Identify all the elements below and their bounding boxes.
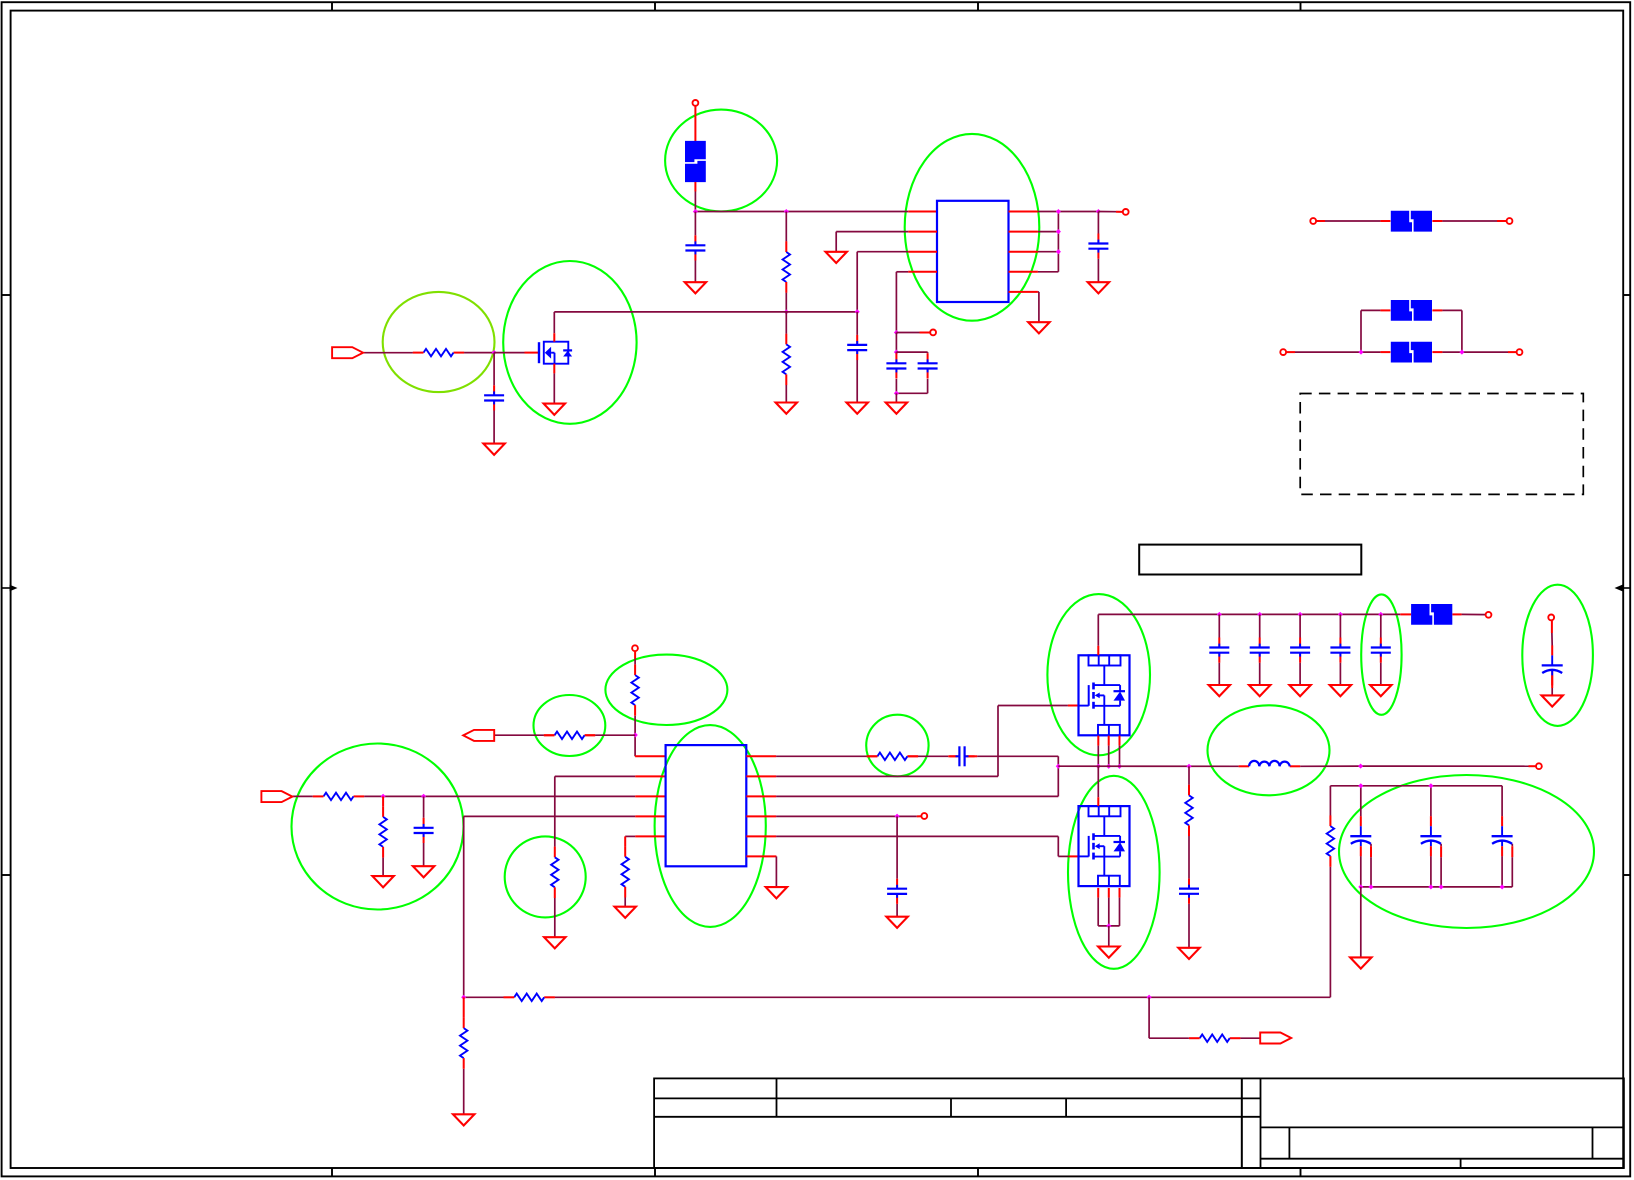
- terminal J3b: [1517, 349, 1523, 355]
- ground rail cap 2: [1249, 685, 1270, 696]
- highlight ellipse around FB1: [665, 110, 777, 212]
- wire R12 to port: [1240, 1037, 1260, 1039]
- wire bank cap 3 column: [1502, 786, 1512, 887]
- junction bank aux 2: [1439, 884, 1444, 889]
- wire U1 pin5 ground: [1038, 292, 1039, 322]
- junction output node: [1358, 764, 1363, 769]
- wire port to R3: [363, 352, 413, 354]
- wire U1 pin3 to node: [857, 252, 908, 312]
- terminal VOUT1: [1123, 209, 1129, 215]
- resistor R10: [460, 1017, 467, 1068]
- junction comp node: [895, 814, 900, 819]
- junction FB trim: [1147, 995, 1152, 1000]
- ground U1 pin2: [826, 252, 847, 263]
- terminal TP1: [930, 330, 936, 336]
- wire C4 column: [423, 796, 425, 866]
- wire SW sense row: [776, 766, 1058, 796]
- wire Q2 source stubs: [1098, 736, 1119, 767]
- junction node VIN1: [693, 209, 698, 214]
- junction rail cap 5: [1378, 612, 1383, 617]
- wire pullup column: [635, 651, 666, 756]
- ground below C4: [413, 866, 434, 877]
- wire node to U1 pin1: [695, 211, 937, 213]
- highlight circle around R9: [866, 715, 928, 777]
- capacitor C10 rail: [1209, 638, 1229, 663]
- ground below R5: [544, 937, 565, 948]
- ferrite bead FB5: [1411, 604, 1452, 625]
- dashed note box: [1300, 394, 1583, 495]
- ground below Q1: [544, 404, 565, 415]
- wire LG row: [776, 836, 1079, 856]
- wire long node horizontal: [554, 311, 857, 313]
- wire Q3 drain: [1097, 766, 1099, 806]
- resistor R9: [867, 753, 918, 760]
- resistor R3: [413, 349, 464, 356]
- wire terminal to FB1: [694, 106, 696, 141]
- polarized capacitor bank 3: [1492, 816, 1513, 856]
- resistor R6: [631, 664, 638, 715]
- highlight ellipse around Q2 package: [1047, 594, 1150, 755]
- wire C2 column: [856, 312, 858, 403]
- border mid arrow left: [2, 585, 18, 592]
- wire bank cap 2 column: [1431, 786, 1441, 887]
- wire trim route: [1149, 997, 1189, 1038]
- wire R3 to gate node: [464, 352, 494, 354]
- wire capAB to ground: [895, 393, 897, 402]
- junction Q3 source: [1106, 923, 1111, 928]
- ferrite bead FB2: [1391, 211, 1432, 232]
- capacitor C11 rail: [1250, 638, 1270, 663]
- capacitor C4: [414, 818, 434, 843]
- wire parallel bead branch: [1361, 310, 1462, 352]
- resistor R1: [783, 241, 790, 292]
- junction R1 bottom: [784, 309, 789, 314]
- ground rail cap 3: [1289, 685, 1310, 696]
- U2 right pin stubs: [746, 756, 776, 856]
- polarized capacitor bank 1: [1350, 816, 1371, 856]
- border mid arrow right: [1615, 585, 1632, 592]
- resistor R5: [551, 847, 558, 898]
- port TRIM: [1260, 1033, 1291, 1044]
- U1 right pin stubs: [1009, 212, 1038, 292]
- ground below R8: [615, 907, 636, 918]
- junction rail cap 3: [1298, 612, 1303, 617]
- capacitor C1: [685, 235, 705, 260]
- junction bank bottom main 2: [1428, 884, 1433, 889]
- ground below snubber: [1178, 948, 1199, 959]
- wire Q3 source stubs: [1098, 888, 1119, 926]
- highlight ellipse around output cap bank: [1339, 775, 1594, 928]
- wire L1 stubs: [1239, 765, 1301, 767]
- highlight ellipse around U2: [655, 725, 766, 927]
- inductor L1: [1249, 761, 1290, 766]
- junction SW boot: [1056, 764, 1061, 769]
- highlight ellipse around U1: [905, 134, 1040, 321]
- U1 left pin stubs: [908, 232, 937, 272]
- ground below C16: [1542, 695, 1563, 706]
- capacitor C13 rail: [1330, 638, 1350, 663]
- junction gate node: [492, 350, 497, 355]
- resistor R2: [783, 334, 790, 385]
- transistor Q1: [539, 342, 572, 364]
- junction right bus 2: [1056, 229, 1061, 234]
- ferrite bead FB4: [1391, 300, 1432, 321]
- wire port IN2 to R4 node: [292, 795, 312, 797]
- highlight circle around R7: [534, 695, 606, 756]
- ferrite bead FB3: [1391, 342, 1432, 363]
- wire bank top rail: [1330, 785, 1502, 787]
- resistor R4: [379, 806, 386, 857]
- capacitor C13 snubber: [1179, 879, 1199, 904]
- wire FB1 to node: [694, 182, 696, 212]
- junction pin4 node A: [894, 330, 899, 335]
- junction capAB bottom: [894, 391, 899, 396]
- wire HG row: [776, 706, 1078, 777]
- wire rail cap 1 column: [1218, 614, 1220, 685]
- terminal VBAT: [1548, 615, 1554, 621]
- junction bank aux 1: [1368, 884, 1373, 889]
- junction snubber top: [1186, 764, 1191, 769]
- highlight ellipse around Q3 package: [1068, 776, 1160, 969]
- ground rail cap 5: [1370, 685, 1391, 696]
- junction bank top 1: [1358, 783, 1363, 788]
- junction FB left: [461, 995, 466, 1000]
- wire feedback line: [464, 996, 1149, 998]
- IC U2: [666, 745, 747, 866]
- ground below C6: [886, 917, 907, 928]
- wire snubber column: [1188, 766, 1190, 948]
- terminal J3a: [1280, 349, 1286, 355]
- wire R2 column: [785, 312, 787, 403]
- highlight circle around R3: [383, 292, 495, 392]
- polarized capacitor bank 2: [1420, 816, 1441, 856]
- wire pgnd row: [775, 856, 777, 887]
- terminal P1: [693, 100, 699, 106]
- wire comp row: [776, 815, 921, 817]
- ground below R2: [776, 403, 797, 414]
- wire bank bottom rail: [1361, 886, 1512, 888]
- capacitor C2: [847, 335, 867, 360]
- wire U2 pin2 route: [555, 776, 666, 846]
- ground below C3: [1088, 282, 1109, 293]
- wire terminal-bead-terminal: [1316, 220, 1507, 222]
- wire R4 column: [382, 796, 384, 876]
- IC U1: [937, 201, 1009, 302]
- port OUT3: [463, 730, 494, 741]
- highlight ellipse around C15: [1361, 594, 1401, 714]
- wire U1 pin2 to ground: [836, 232, 908, 252]
- wire R10 column: [463, 997, 465, 1114]
- capacitor C7b: [918, 353, 938, 378]
- junction parallel right: [1459, 350, 1464, 355]
- wire node A down: [895, 333, 897, 353]
- capacitor C7a: [886, 353, 906, 378]
- wire Q3 source to ground: [1108, 926, 1110, 947]
- wire Ctop column: [493, 353, 495, 444]
- resistor R4h: [313, 793, 364, 800]
- capacitor C5 boot: [949, 746, 974, 766]
- junction parallel left: [1358, 350, 1363, 355]
- wire capB jog: [896, 352, 927, 393]
- junction Cin: [421, 794, 426, 799]
- junction right bus 3: [1056, 249, 1061, 254]
- ground below capAB: [886, 403, 907, 414]
- wire R5 to ground: [554, 898, 556, 937]
- wire parallel beads main: [1286, 351, 1517, 353]
- polarized capacitor C16: [1542, 645, 1563, 685]
- highlight circle around input RC: [292, 744, 464, 910]
- highlight ellipse around Q1: [503, 261, 636, 424]
- ground below C2: [847, 403, 868, 414]
- junction SW c: [1117, 764, 1122, 769]
- junction rail cap 2: [1257, 612, 1262, 617]
- solid note box: [1139, 545, 1361, 575]
- junction rail cap 1: [1217, 612, 1222, 617]
- terminal J2a: [1310, 218, 1316, 224]
- junction Rdiv: [381, 794, 386, 799]
- junction bank bottom main 1: [1358, 884, 1363, 889]
- ground below C8: [483, 444, 504, 455]
- capacitor C6: [887, 879, 907, 904]
- capacitor C12 rail: [1290, 638, 1310, 663]
- ground U1 pin5: [1028, 322, 1049, 333]
- junction R1 top: [784, 209, 789, 214]
- wire C16 column: [1551, 620, 1553, 695]
- highlight circle around R5: [505, 836, 586, 917]
- wire Q1 drain: [553, 312, 555, 342]
- wire VIN rail: [1098, 614, 1485, 655]
- wire U1 pin4 to node: [896, 272, 908, 333]
- ground below R10: [453, 1114, 474, 1125]
- wire R1 column: [785, 212, 787, 312]
- capacitor C8: [484, 385, 504, 410]
- terminal J2b: [1507, 218, 1513, 224]
- junction SW a: [1096, 764, 1101, 769]
- wire L1 to output: [1300, 765, 1536, 767]
- resistor R8: [622, 846, 629, 897]
- capacitor C14 rail: [1371, 638, 1391, 663]
- wire boot row: [776, 756, 1058, 766]
- wire C1 column: [694, 212, 696, 283]
- wire U2 pin4 route: [464, 816, 666, 997]
- wire rail cap 5 column: [1380, 614, 1382, 685]
- highlight ellipse around C16: [1522, 585, 1593, 726]
- ferrite bead FB1: [685, 141, 706, 182]
- ground below bank: [1350, 957, 1371, 968]
- junction right bus 1: [1056, 209, 1061, 214]
- ground below Q3: [1098, 947, 1119, 958]
- junction C3 top: [1096, 209, 1101, 214]
- wire bank to ground: [1360, 887, 1362, 958]
- ground rail cap 4: [1330, 685, 1351, 696]
- wire R7 row: [495, 734, 635, 736]
- wire Q1 source: [553, 364, 555, 404]
- wire SW line: [1058, 765, 1238, 767]
- resistor R12: [1189, 1035, 1240, 1042]
- terminal VOUT2: [1536, 763, 1542, 769]
- wire R11 column: [1149, 786, 1330, 998]
- wire gate node to Q1: [494, 352, 538, 354]
- junction SW b: [1106, 764, 1111, 769]
- junction rail cap 4: [1338, 612, 1343, 617]
- port IN2: [261, 791, 292, 802]
- resistor R7: [544, 732, 595, 739]
- resistor R11: [1327, 815, 1334, 866]
- highlight ellipse around L1: [1208, 705, 1330, 795]
- wire C3 column: [1097, 212, 1099, 283]
- wire rail cap 2 column: [1259, 614, 1261, 685]
- resistor R14: [504, 994, 555, 1001]
- transistor Q2 package: [1079, 655, 1130, 735]
- wire rail cap 3 column: [1299, 614, 1301, 685]
- ground below R4: [372, 876, 393, 887]
- ground below C1: [685, 282, 706, 293]
- wire rail cap 4 column: [1339, 614, 1341, 685]
- wire to terminal VOUT1: [1098, 211, 1122, 213]
- wire capA column: [895, 352, 897, 393]
- terminal VIN: [1486, 612, 1492, 618]
- highlight ellipse around R6: [605, 655, 727, 725]
- wire bank cap 1 column: [1361, 786, 1371, 887]
- terminal TP2: [921, 813, 927, 819]
- ground U2 pgnd: [766, 887, 787, 898]
- wire comp cap column: [896, 816, 898, 916]
- junction bank bottom main 3: [1500, 884, 1505, 889]
- wire R4h to junctions: [364, 795, 665, 797]
- wire U2 pin5 route: [625, 836, 665, 846]
- junction R6 bottom: [633, 732, 638, 737]
- junction capAB top: [894, 350, 899, 355]
- wire node A to terminal: [896, 332, 930, 334]
- wire R8 to ground: [624, 898, 626, 907]
- port IN1: [332, 347, 363, 358]
- junction bank top 2: [1428, 783, 1433, 788]
- transistor Q3 package: [1079, 806, 1130, 886]
- capacitor C3: [1088, 234, 1108, 259]
- terminal VREF: [632, 645, 638, 651]
- wire U1 right bus: [1038, 212, 1099, 272]
- junction C2 top: [855, 309, 860, 314]
- resistor R13 snubber: [1185, 785, 1192, 836]
- ground rail cap 1: [1209, 685, 1230, 696]
- title block (empty): [654, 1078, 1624, 1168]
